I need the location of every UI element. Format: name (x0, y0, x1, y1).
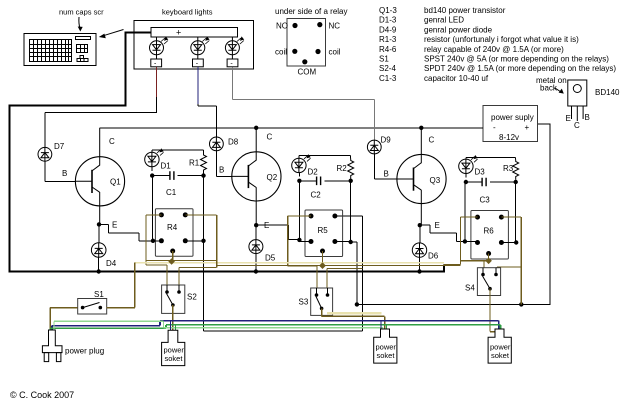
node R6 left (463, 239, 467, 243)
svg-text:© C. Cook 2007: © C. Cook 2007 (10, 390, 74, 400)
relay R6 (471, 211, 509, 260)
svg-text:D3: D3 (475, 168, 486, 177)
svg-text:D1-3: D1-3 (379, 16, 397, 25)
transistor Q2 (219, 128, 281, 230)
svg-text:D1: D1 (161, 162, 172, 171)
capacitor C1 (152, 171, 203, 197)
svg-text:C: C (574, 121, 580, 130)
wire LED1 to D7 (45, 67, 157, 148)
svg-text:+: + (525, 123, 530, 132)
olive coil wiring R6 (444, 217, 521, 304)
under side of a relay diagram (275, 7, 348, 77)
svg-text:bd140 power transistor: bd140 power transistor (424, 6, 506, 15)
node D5 rail (254, 269, 258, 273)
wire R5 mid right (335, 242, 357, 305)
wire E3 to relay (420, 225, 478, 241)
svg-text:E: E (112, 221, 117, 230)
svg-text:coil: coil (275, 48, 287, 57)
diode D8 (210, 137, 239, 151)
svg-text:D2: D2 (308, 168, 319, 177)
diode D6 (412, 225, 438, 271)
node R5 left (297, 238, 301, 242)
svg-text:D5: D5 (265, 254, 276, 263)
svg-text:D7: D7 (54, 142, 65, 151)
wire R6 mid right (501, 242, 516, 244)
wire bus blue (52, 321, 499, 332)
svg-text:resistor (unfortunaly i forgot: resistor (unfortunaly i forgot what valu… (424, 35, 579, 44)
wire top loop 3 (466, 157, 516, 159)
switch S3 (299, 288, 333, 315)
node psu return S3 (355, 302, 359, 306)
legend (379, 6, 616, 83)
wire D7 to Q1 base (45, 161, 76, 181)
keyboard lights box (134, 8, 254, 70)
svg-text:C2: C2 (311, 191, 322, 200)
svg-text:C3: C3 (480, 196, 491, 205)
svg-text:S2: S2 (187, 293, 197, 302)
svg-text:R6: R6 (484, 227, 495, 236)
wire E1 to relay (99, 224, 161, 240)
svg-text:E: E (435, 221, 440, 230)
resistor R1 (189, 153, 207, 174)
olive coil wiring R4 (146, 215, 217, 285)
wire S3 to socket2 (322, 308, 385, 330)
svg-text:coil: coil (329, 48, 341, 57)
diode D7 (38, 142, 65, 161)
svg-text:R2: R2 (337, 164, 348, 173)
keyboard icon (24, 34, 96, 66)
node psu return S4 (519, 302, 523, 306)
svg-text:keyboard lights: keyboard lights (162, 8, 213, 17)
wire R4 right chain (204, 216, 363, 331)
svg-text:D8: D8 (228, 138, 239, 147)
svg-text:S1: S1 (94, 290, 104, 299)
wire S2 to socket1 (172, 305, 174, 331)
diode D5 (249, 225, 276, 271)
power socket 1 (162, 330, 185, 365)
svg-text:B: B (219, 166, 224, 175)
wire top loop 2 (299, 155, 351, 158)
wire D1 down (151, 167, 153, 241)
capacitor C2 (299, 177, 350, 200)
svg-text:S3: S3 (299, 298, 309, 307)
node D6 rail (417, 269, 421, 273)
svg-text:S2-4: S2-4 (379, 64, 396, 73)
switch S2 (162, 285, 198, 313)
svg-text:power plug: power plug (65, 347, 104, 356)
svg-text:D4: D4 (106, 259, 117, 268)
node R6 right (514, 240, 518, 244)
transistor Q1 (62, 128, 125, 230)
node R2-C2 (349, 179, 353, 183)
svg-text:NC: NC (329, 22, 341, 31)
keyboard LED 2 (191, 37, 210, 68)
svg-text:R1: R1 (189, 159, 200, 168)
wire S4 to socket3 (490, 289, 500, 334)
diode D4 (91, 224, 116, 271)
svg-text:R3: R3 (503, 164, 514, 173)
node R4 left (151, 239, 155, 243)
wire top loop 1 (152, 150, 204, 153)
svg-text:capacitor 10-40 uf: capacitor 10-40 uf (424, 74, 489, 83)
svg-text:B: B (585, 113, 590, 122)
transistor Q3 (384, 128, 447, 230)
svg-text:NO: NO (276, 22, 288, 31)
svg-text:C1-3: C1-3 (379, 74, 397, 83)
LED supply bus bar (151, 28, 238, 38)
wire R3 down (515, 182, 517, 243)
svg-text:S1: S1 (379, 55, 389, 64)
wire LED2 to D8 (198, 67, 217, 137)
wire collector bus (100, 127, 483, 129)
svg-text:BD140: BD140 (595, 88, 620, 97)
switch S1 (78, 290, 107, 314)
svg-text:Q1: Q1 (110, 178, 121, 187)
svg-text:C: C (109, 137, 115, 146)
LED D1 (145, 149, 172, 171)
svg-text:C: C (267, 133, 273, 142)
wire D2 down (298, 173, 300, 242)
wire bus light green (54, 321, 383, 332)
node R5 right (349, 240, 353, 244)
arrow to keyboard (99, 30, 124, 39)
svg-text:8-12v: 8-12v (499, 133, 519, 142)
wire keyboard common (10, 31, 152, 271)
svg-text:C: C (429, 136, 435, 145)
svg-text:SPDT 240v @ 1.5A (or more depe: SPDT 240v @ 1.5A (or more depending on t… (424, 64, 616, 73)
svg-text:Q2: Q2 (267, 173, 278, 182)
svg-text:genral power diode: genral power diode (424, 25, 493, 34)
svg-text:Q3: Q3 (430, 176, 441, 185)
wire R1 down (203, 176, 205, 241)
wire E2 to relay (256, 225, 311, 241)
node R1-C1 (201, 173, 205, 177)
svg-text:R5: R5 (318, 226, 329, 235)
svg-text:soket: soket (165, 354, 184, 363)
wire D9 to Q3 base (375, 154, 397, 179)
svg-text:under side of a relay: under side of a relay (275, 7, 348, 16)
label num caps scr (59, 8, 104, 32)
relay R4 (155, 209, 193, 257)
wire psu return (357, 124, 550, 305)
bus taps socket2 (380, 321, 382, 332)
svg-text:R1-3: R1-3 (379, 35, 397, 44)
relay R5 (305, 210, 343, 257)
svg-text:power suply: power suply (491, 113, 534, 122)
wire D8 to Q2 base (217, 151, 232, 177)
wire R2 down (350, 181, 352, 242)
LED D2 (292, 155, 319, 177)
svg-text:SPST 240v @ 5A (or more depend: SPST 240v @ 5A (or more depending on the… (424, 55, 609, 64)
svg-text:B: B (62, 169, 67, 178)
wire S1 to com bus (107, 307, 135, 309)
svg-text:Q1-3: Q1-3 (379, 6, 397, 15)
node E Q1 (97, 222, 101, 226)
node D3-C3 (464, 180, 468, 184)
svg-text:S4: S4 (465, 284, 475, 293)
svg-text:D4-9: D4-9 (379, 25, 397, 34)
wire D3 down (465, 174, 466, 242)
wire tan S3 branch (327, 312, 382, 315)
power socket 2 (374, 329, 397, 363)
svg-text:R4-6: R4-6 (379, 45, 397, 54)
olive coil wiring R5 (288, 216, 363, 288)
power socket 3 (488, 329, 511, 363)
power plug (42, 330, 104, 362)
svg-text:soket: soket (377, 351, 396, 360)
keyboard LED 3 (225, 37, 244, 68)
node E Q3 (418, 223, 422, 227)
svg-text:C1: C1 (166, 188, 177, 197)
LED D3 (459, 156, 486, 177)
node R4 right (201, 239, 205, 243)
svg-text:COM: COM (298, 68, 317, 77)
svg-text:E: E (566, 114, 571, 123)
keyboard LED 1 (150, 37, 169, 68)
svg-text:R4: R4 (167, 223, 178, 232)
node R3-C3 (514, 180, 518, 184)
power supply box (483, 106, 538, 143)
wire plug to S1 (50, 308, 77, 331)
svg-text:D9: D9 (381, 136, 392, 145)
junction R4 com (168, 258, 175, 265)
node C Q3 (419, 126, 423, 130)
bus taps socket1 (170, 321, 172, 331)
svg-text:genral LED: genral LED (424, 16, 464, 25)
svg-text:num caps scr: num caps scr (59, 8, 104, 17)
svg-text:+: + (176, 28, 181, 38)
diode D9 (367, 136, 391, 154)
wire COM bus olive (135, 260, 461, 307)
resistor R2 (337, 159, 354, 180)
wire bus green (51, 325, 501, 332)
node D2-C2 (297, 179, 301, 183)
node C Q2 (254, 126, 258, 130)
node D1-C1 (150, 173, 154, 177)
wire LED3 to D9 (232, 67, 374, 140)
junction R5 com (319, 262, 326, 269)
svg-text:-: - (493, 123, 496, 132)
node E Q2 (254, 223, 258, 227)
svg-text:relay capable of 240v @ 1.5A (: relay capable of 240v @ 1.5A (or more) (424, 45, 564, 54)
junction R6 com (485, 258, 492, 265)
BD140 package (536, 76, 620, 130)
switch S4 (465, 268, 501, 296)
svg-text:B: B (384, 170, 389, 179)
wire R4 mid right (185, 240, 203, 242)
node D4 rail (97, 269, 101, 273)
svg-text:D6: D6 (428, 252, 439, 261)
svg-text:soket: soket (491, 351, 510, 360)
capacitor C3 (466, 178, 516, 205)
wire COM bus light (135, 262, 444, 264)
wire emitter-diode rail (9, 265, 444, 273)
resistor R3 (503, 160, 519, 180)
